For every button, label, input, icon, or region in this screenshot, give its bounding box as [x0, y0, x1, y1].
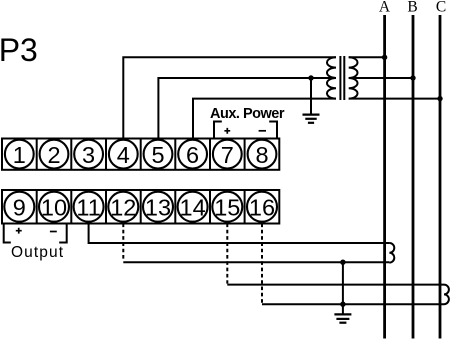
svg-text:4: 4 [117, 142, 130, 168]
svg-text:7: 7 [221, 142, 234, 168]
svg-text:1: 1 [13, 142, 26, 168]
svg-text:5: 5 [151, 142, 164, 168]
svg-text:P3: P3 [0, 32, 38, 68]
svg-text:6: 6 [186, 142, 199, 168]
svg-text:11: 11 [76, 194, 100, 220]
svg-text:3: 3 [82, 142, 95, 168]
svg-text:Output: Output [11, 244, 64, 261]
svg-text:10: 10 [41, 194, 67, 220]
svg-text:16: 16 [249, 194, 275, 220]
svg-text:13: 13 [145, 194, 171, 220]
svg-text:Aux. Power: Aux. Power [210, 106, 285, 122]
svg-text:B: B [407, 0, 417, 15]
svg-text:12: 12 [110, 194, 136, 220]
svg-text:9: 9 [13, 194, 26, 220]
svg-text:15: 15 [214, 194, 240, 220]
svg-text:2: 2 [47, 142, 60, 168]
svg-text:C: C [436, 0, 446, 15]
svg-text:A: A [379, 0, 391, 15]
svg-text:8: 8 [255, 142, 268, 168]
svg-text:14: 14 [180, 194, 206, 220]
